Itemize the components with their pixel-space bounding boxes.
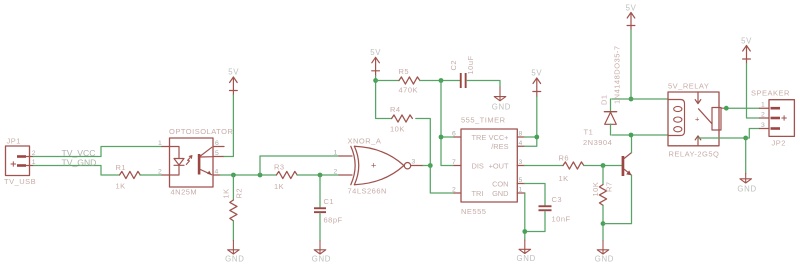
svg-text:TV_GND: TV_GND — [62, 157, 97, 167]
wire coil top — [612, 98, 668, 100]
svg-text:+: + — [695, 115, 700, 124]
junction XNOR in1 branch — [258, 173, 263, 178]
svg-text:+: + — [371, 160, 376, 170]
svg-text:2N3904: 2N3904 — [583, 138, 612, 147]
junction opto out / R2 — [231, 173, 236, 178]
svg-text:SPEAKER: SPEAKER — [751, 89, 790, 98]
wire 5V down to R4 — [376, 76, 392, 119]
wire emitter down to R7 gnd — [603, 175, 632, 223]
wire junction down to gnd — [745, 138, 747, 174]
wire main node (opto pin4 line) — [220, 174, 276, 176]
svg-text:R2: R2 — [235, 188, 244, 199]
ground (T1) — [595, 241, 614, 264]
svg-text:8: 8 — [519, 131, 523, 138]
svg-text:5V: 5V — [228, 68, 239, 77]
svg-text:1K: 1K — [221, 188, 230, 198]
ground (C1) — [312, 241, 331, 264]
supply 5V (opto) — [228, 68, 239, 96]
supply 5V (timing) — [370, 48, 381, 76]
wire net TV_VCC — [34, 147, 163, 159]
wire R6 to base — [584, 165, 622, 167]
svg-text:74LS266N: 74LS266N — [348, 187, 387, 196]
svg-text:3: 3 — [519, 159, 523, 166]
junction R5 / C2 / 555 — [439, 78, 444, 83]
svg-text:10uF: 10uF — [466, 55, 475, 74]
svg-text:1K: 1K — [116, 182, 126, 191]
svg-text:7: 7 — [452, 159, 456, 166]
junction XNOR out / R4 — [428, 163, 433, 168]
svg-text:TRI: TRI — [472, 189, 484, 198]
svg-text:VCC+: VCC+ — [489, 133, 509, 142]
wire R1 to opto pin2 — [140, 174, 162, 176]
svg-text:T1: T1 — [584, 128, 594, 137]
svg-text:GND: GND — [737, 185, 756, 194]
svg-text:1K: 1K — [274, 182, 284, 191]
junction VCC — [534, 135, 539, 140]
resistor R4 — [390, 105, 412, 134]
wire speaker pin3 to gnd — [746, 129, 760, 139]
svg-text:NE555: NE555 — [461, 207, 486, 216]
svg-text:6: 6 — [452, 131, 456, 138]
wire XNOR in1 branch — [260, 156, 339, 175]
svg-text:470K: 470K — [399, 86, 419, 95]
svg-text:1N4148DO35-7: 1N4148DO35-7 — [613, 45, 622, 104]
wire 5V rail down — [630, 30, 632, 99]
capacitor C2 — [449, 55, 475, 88]
svg-text:TRE: TRE — [472, 133, 487, 142]
pin labels JP2 — [761, 102, 765, 130]
svg-text:5: 5 — [215, 150, 219, 157]
resistor R6 — [559, 154, 584, 184]
svg-text:C1: C1 — [324, 197, 335, 206]
capacitor C1 — [314, 175, 343, 241]
svg-text:R3: R3 — [274, 163, 285, 172]
wire 5V to opto pin5 — [224, 95, 233, 157]
junction relay out — [724, 106, 729, 111]
svg-text:1: 1 — [158, 140, 162, 147]
resistor R5 — [399, 67, 420, 95]
svg-text:R6: R6 — [559, 154, 570, 163]
supply 5V (555) — [531, 69, 542, 97]
svg-text:R1: R1 — [116, 163, 127, 172]
svg-text:4: 4 — [519, 140, 523, 147]
svg-text:2: 2 — [452, 187, 456, 194]
junction coil bottom / collector — [629, 133, 634, 138]
svg-text:1: 1 — [761, 102, 765, 109]
capacitor C3 — [539, 195, 571, 224]
transistor T1 2N3904 — [583, 128, 632, 177]
svg-text:GND: GND — [225, 255, 244, 264]
relay K1 RELAY-2G5Q — [668, 81, 726, 158]
wire VCC+/RES to 5V — [524, 97, 537, 147]
wire C3 to GND junction — [525, 211, 545, 231]
svg-text:D1: D1 — [600, 94, 609, 105]
svg-text:5V: 5V — [370, 48, 381, 57]
svg-text:2: 2 — [158, 169, 162, 176]
svg-text:5V: 5V — [741, 37, 752, 46]
junction 5V / D1 / coil top — [629, 97, 634, 102]
svg-text:6: 6 — [215, 140, 219, 147]
svg-text:1K: 1K — [559, 174, 569, 183]
svg-text:C3: C3 — [552, 195, 563, 204]
svg-text:3: 3 — [761, 122, 765, 129]
svg-text:4: 4 — [215, 169, 219, 176]
svg-text:10nF: 10nF — [552, 215, 571, 224]
junction TRE — [439, 135, 444, 140]
resistor R1 — [116, 163, 141, 191]
ground (555) — [517, 240, 536, 263]
svg-text:JP2: JP2 — [772, 139, 786, 148]
svg-text:GND: GND — [492, 103, 511, 112]
svg-text:2: 2 — [761, 112, 765, 119]
junction 555 gnd / C3 — [522, 229, 527, 234]
ground (C2) — [492, 87, 511, 112]
junction emitter / R7 — [601, 221, 606, 226]
svg-text:10K: 10K — [591, 182, 600, 197]
svg-text:1: 1 — [519, 187, 523, 194]
svg-text:3: 3 — [412, 159, 416, 166]
svg-text:68pF: 68pF — [324, 216, 343, 225]
svg-text:TV_USB: TV_USB — [4, 177, 36, 186]
wire R3 to XNOR in2 — [297, 174, 339, 176]
resistor R7 — [591, 166, 614, 241]
svg-text:+OUT: +OUT — [489, 161, 509, 170]
wire 5V to R5 — [376, 80, 399, 82]
svg-text:R4: R4 — [390, 105, 401, 114]
wire CON to C3 — [524, 184, 545, 206]
svg-text:5V: 5V — [626, 4, 637, 13]
svg-text:R5: R5 — [399, 67, 410, 76]
svg-text:1: 1 — [334, 150, 338, 157]
junction C1 branch — [318, 173, 323, 178]
connector JP2 SPEAKER — [751, 89, 794, 148]
pin labels opto — [158, 140, 219, 176]
resistor R2 — [221, 175, 243, 241]
svg-text:XNOR_A: XNOR_A — [348, 137, 382, 146]
connector JP1 — [4, 137, 36, 186]
svg-text:10K: 10K — [390, 125, 405, 134]
svg-text:C2: C2 — [449, 60, 458, 71]
svg-text:GND: GND — [595, 255, 614, 264]
svg-text:555_TIMER: 555_TIMER — [461, 116, 506, 125]
wire 555 GND pin — [524, 193, 526, 240]
svg-text:GND: GND — [312, 255, 331, 264]
wire C2 to GND — [467, 81, 500, 88]
ground (speaker) — [737, 174, 756, 194]
junction 5V / R5 — [373, 78, 378, 83]
wire to TRE — [441, 136, 454, 138]
svg-text:5V: 5V — [531, 69, 542, 78]
svg-text:5V_RELAY: 5V_RELAY — [668, 81, 709, 90]
svg-text:CON: CON — [492, 179, 508, 188]
supply 5V (relay rail) — [626, 4, 637, 31]
svg-text:2: 2 — [334, 169, 338, 176]
pin labels XNOR — [334, 150, 416, 176]
wire 555 TRE/DIS branch — [441, 81, 454, 166]
wire R5 to C2 — [420, 80, 460, 82]
resistor R3 — [274, 163, 297, 192]
svg-text:/RES: /RES — [491, 142, 508, 151]
pin labels 555 — [452, 131, 523, 194]
svg-text:R7: R7 — [605, 181, 614, 192]
diode D1 1N4148 — [600, 45, 622, 135]
svg-text:OPTOISOLATOR: OPTOISOLATOR — [169, 127, 233, 136]
optoisolator U1 4N25M — [162, 127, 233, 196]
svg-text:4N25M: 4N25M — [171, 187, 198, 196]
wire collector up — [631, 135, 633, 153]
IC 555_TIMER NE555 — [454, 116, 525, 217]
wire net TV_GND — [34, 157, 120, 175]
svg-text:JP1: JP1 — [7, 137, 21, 146]
wire OUT to R6 — [524, 165, 563, 167]
svg-text:DIS: DIS — [472, 161, 484, 170]
wire 5V to speaker pin2 — [747, 64, 760, 119]
wire relay contact to gnd — [698, 137, 746, 139]
junction base / R7 — [601, 163, 606, 168]
wire relay no to speaker pin1 — [726, 107, 759, 109]
wire R4 out to TRI — [416, 119, 454, 194]
XNOR gate U2 74LS266N — [339, 137, 411, 196]
svg-text:RELAY-2G5Q: RELAY-2G5Q — [669, 150, 720, 159]
supply 5V (speaker) — [741, 37, 752, 64]
svg-text:5: 5 — [519, 177, 523, 184]
svg-text:2: 2 — [32, 150, 36, 157]
wire coil bottom — [612, 134, 668, 136]
junction contact / spk3 / gnd — [743, 136, 748, 141]
svg-text:GND: GND — [492, 189, 508, 198]
wire XNOR out — [411, 165, 423, 167]
svg-text:GND: GND — [517, 254, 536, 263]
ground (R2) — [225, 241, 244, 264]
